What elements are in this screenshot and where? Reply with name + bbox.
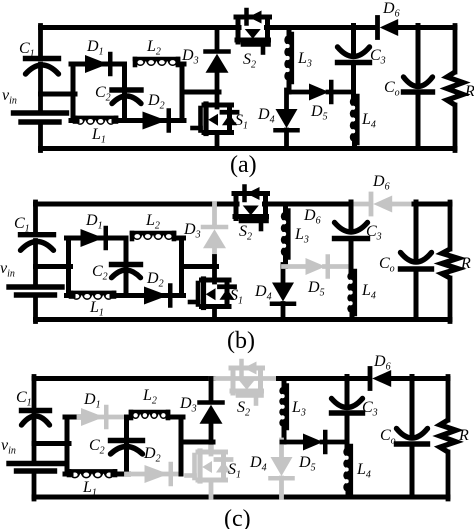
svg-text:C1: C1 — [19, 40, 35, 60]
wire loop left vertical (fig c) — [65, 417, 70, 474]
wire L4 to bottom rail (fig c) — [346, 491, 351, 497]
wire D4 upper stub (fig b) — [281, 265, 286, 283]
capacitor C3 (fig a) — [338, 47, 386, 67]
svg-text:L4: L4 — [361, 111, 376, 131]
wire L4 to bottom rail (fig b) — [350, 312, 355, 320]
wire loop left vertical (fig a) — [71, 64, 76, 121]
capacitor C1 (fig c) — [16, 389, 50, 425]
wire input node (fig c) — [34, 441, 69, 446]
svg-text:C1: C1 — [14, 215, 30, 235]
wire bottom branch (fig b) — [67, 293, 129, 298]
wire D5 branch (fig a) — [287, 90, 354, 95]
wire S1 to bottom rail (fig c) — [209, 480, 214, 497]
svg-text:Co: Co — [384, 79, 400, 99]
wire D3 to S1 (fig a) — [215, 73, 220, 107]
diode D6 (fig b) — [371, 173, 392, 214]
inductor L3 (fig a) — [284, 34, 312, 82]
wire right rail (fig a) — [453, 26, 458, 151]
svg-text:C2: C2 — [95, 84, 111, 104]
inductor L3 (fig c) — [279, 386, 306, 429]
wire D3 upper stub (fig c) — [209, 379, 214, 401]
wire top branch (fig c) — [65, 415, 183, 420]
label (b) — [227, 328, 255, 354]
svg-text:L3: L3 — [294, 226, 309, 246]
diode D1 (fig c) — [81, 391, 106, 427]
wire D5 branch (fig b) — [284, 264, 352, 269]
svg-text:(a): (a) — [230, 152, 257, 178]
label (c) — [224, 506, 251, 529]
wire L3 upper stub (fig b) — [283, 204, 288, 213]
svg-text:D3: D3 — [179, 395, 197, 415]
wire L3 upper stub (fig c) — [282, 379, 287, 388]
inductor L1 (fig a) — [75, 118, 116, 146]
diode D6 (fig a) — [378, 0, 400, 38]
capacitor C3 (fig c) — [332, 399, 378, 419]
svg-text:L3: L3 — [297, 50, 312, 70]
wire top rail left (fig b) — [36, 202, 238, 207]
wire tap to switch leg (fig c) — [181, 440, 213, 445]
diode D5 (fig c) — [298, 432, 325, 474]
source vin (fig c) — [1, 437, 62, 471]
wire loop right vertical (fig c) — [179, 417, 184, 474]
svg-text:S1: S1 — [235, 112, 248, 132]
wire C2 branch (fig c) — [124, 417, 129, 474]
inductor L4 (fig a) — [350, 96, 376, 143]
diode D1 (fig a) — [85, 38, 110, 74]
transistor S2 (fig b) — [234, 187, 268, 243]
wire top rail left (fig c) — [34, 376, 213, 381]
svg-text:C3: C3 — [366, 223, 382, 243]
wire D4 to bottom rail (fig a) — [284, 130, 289, 149]
wire input node (fig a) — [41, 92, 76, 97]
wire top rail right (fig a) — [398, 25, 455, 30]
wire input node (fig b) — [36, 264, 71, 269]
svg-text:L4: L4 — [361, 282, 376, 302]
svg-text:S2: S2 — [243, 51, 256, 71]
svg-text:S2: S2 — [239, 223, 252, 243]
capacitor Co (fig a) — [384, 77, 433, 99]
wire D3 to S1 (fig c) — [209, 424, 214, 454]
wire L3 lower stub (fig c) — [282, 426, 287, 442]
svg-text:D6: D6 — [373, 353, 391, 373]
wire top rail middle (fig a) — [267, 25, 376, 30]
wire loop left vertical (fig b) — [66, 238, 71, 296]
inductor L1 (fig b) — [71, 293, 114, 319]
resistor R (fig a) — [447, 72, 474, 105]
wire loop right vertical (fig a) — [180, 64, 185, 121]
diode D3 (fig a) — [181, 47, 229, 73]
capacitor C2 (fig a) — [95, 84, 141, 104]
inductor L2 (fig a) — [135, 38, 178, 66]
wire D3 upper stub (fig a) — [215, 28, 220, 50]
wire bottom branch (fig a) — [71, 118, 127, 123]
wire top rail grey segment (fig c) — [211, 376, 280, 381]
wire S1 to bottom rail (fig a) — [215, 133, 220, 149]
svg-text:D6: D6 — [303, 207, 321, 227]
svg-text:D2: D2 — [143, 445, 161, 465]
wire loop right vertical (fig b) — [179, 238, 184, 296]
wire bottom branch right (fig a) — [125, 118, 185, 123]
svg-text:D5: D5 — [307, 279, 325, 299]
capacitor Co (fig c) — [380, 427, 428, 447]
wire left rail (fig c) — [32, 377, 37, 500]
inductor L4 (fig b) — [347, 271, 376, 314]
svg-text:C2: C2 — [89, 437, 105, 457]
wire tap to switch leg (fig b) — [182, 264, 217, 269]
svg-text:L2: L2 — [146, 38, 161, 58]
diode D4 (fig b) — [254, 283, 294, 304]
wire D3 to S1 (fig b) — [212, 248, 217, 282]
svg-text:S2: S2 — [237, 399, 250, 419]
svg-text:L2: L2 — [142, 387, 157, 407]
svg-text:D4: D4 — [257, 106, 275, 126]
label D6 inner (fig b) — [303, 207, 321, 227]
source vin (fig a) — [2, 87, 67, 122]
diode D3 (fig b) — [183, 221, 226, 248]
svg-text:C3: C3 — [370, 47, 386, 67]
wire top rail output loop (fig b) — [414, 202, 450, 207]
wire L4 to bottom rail (fig a) — [352, 141, 357, 149]
diode D1 (fig b) — [81, 212, 106, 248]
wire C3 to L4 (fig c) — [345, 413, 350, 448]
svg-text:vin: vin — [1, 437, 16, 457]
svg-text:Co: Co — [379, 255, 395, 275]
diode D2 (fig a) — [143, 92, 169, 131]
capacitor Co (fig b) — [379, 253, 432, 275]
svg-text:L3: L3 — [291, 399, 306, 419]
svg-text:D3: D3 — [183, 221, 201, 241]
diode D4 (fig a) — [257, 106, 298, 130]
capacitor C2 (fig b) — [92, 263, 141, 283]
wire C3 to L4 (fig a) — [351, 63, 356, 99]
wire bottom branch (fig c) — [65, 472, 129, 477]
svg-text:L1: L1 — [82, 479, 97, 499]
diode D4 (fig c) — [249, 454, 293, 478]
inductor L4 (fig c) — [343, 446, 371, 493]
transistor S1 (fig a) — [193, 104, 249, 134]
label (a) — [230, 152, 257, 178]
wire D5 branch (fig c) — [282, 440, 347, 445]
svg-text:vin: vin — [2, 87, 17, 107]
inductor L3 (fig b) — [281, 211, 309, 258]
svg-text:D1: D1 — [86, 38, 104, 58]
svg-text:D4: D4 — [254, 283, 272, 303]
transistor S2 (fig c) — [231, 361, 263, 419]
svg-text:vin: vin — [0, 260, 15, 280]
svg-text:Co: Co — [380, 427, 396, 447]
svg-text:C1: C1 — [16, 389, 32, 409]
inductor L2 (fig b) — [132, 212, 174, 240]
resistor R (fig c) — [440, 420, 469, 452]
wire D4 to bottom rail (fig b) — [281, 304, 286, 320]
svg-text:D2: D2 — [146, 270, 164, 290]
wire left rail (fig a) — [38, 26, 43, 151]
wire bottom rail (fig c) — [34, 495, 448, 500]
wire D4 upper stub (fig c) — [279, 440, 284, 457]
svg-text:D1: D1 — [85, 212, 103, 232]
transistor S1 (fig c) — [187, 451, 242, 481]
wire C2 branch (fig b) — [124, 238, 129, 296]
wire top rail right (fig c) — [279, 376, 449, 381]
wire L3 lower stub (fig a) — [287, 80, 292, 92]
wire bottom rail (fig b) — [36, 317, 451, 322]
diode D5 (fig b) — [306, 257, 328, 299]
svg-text:C3: C3 — [362, 399, 378, 419]
diode D3 (fig c) — [179, 395, 223, 424]
capacitor C3 (fig b) — [335, 223, 382, 243]
svg-text:D3: D3 — [181, 47, 199, 67]
wire Co branch (fig a) — [416, 26, 421, 149]
wire top branch grey (fig c) — [79, 415, 129, 420]
wire C3 to L4 (fig b) — [349, 239, 354, 274]
svg-text:D1: D1 — [83, 391, 101, 411]
svg-text:D5: D5 — [310, 103, 328, 123]
svg-text:D6: D6 — [382, 0, 400, 20]
wire top rail middle (fig b) — [265, 202, 352, 207]
wire bottom branch right (fig b) — [126, 293, 184, 298]
svg-text:S1: S1 — [230, 287, 243, 307]
inductor L1 (fig c) — [69, 471, 115, 498]
wire Co branch (fig b) — [414, 202, 419, 320]
source vin (fig b) — [0, 260, 62, 295]
wire D4 to bottom rail (fig c) — [279, 478, 284, 497]
wire bottom branch right grey (fig c) — [127, 472, 180, 477]
wire D4 upper stub (fig a) — [284, 90, 289, 109]
wire left rail (fig b) — [33, 202, 38, 322]
svg-text:R: R — [464, 83, 474, 100]
svg-text:C2: C2 — [92, 263, 108, 283]
wire Co branch (fig c) — [410, 377, 415, 498]
wire L3 lower stub (fig b) — [283, 256, 288, 267]
diode D2 (fig b) — [144, 270, 170, 306]
resistor R (fig b) — [442, 249, 471, 278]
capacitor C1 (fig b) — [14, 215, 54, 250]
wire top rail grey segment (fig b) — [351, 202, 416, 207]
wire right rail (fig c) — [446, 377, 451, 500]
svg-text:D5: D5 — [298, 454, 316, 474]
capacitor C1 (fig a) — [19, 40, 59, 74]
diode D6 (fig c) — [370, 353, 391, 389]
inductor L2 (fig c) — [131, 387, 168, 419]
wire S1 to bottom rail (fig b) — [212, 307, 217, 320]
svg-text:D4: D4 — [249, 454, 267, 474]
wire C3 upper stub (fig a) — [351, 26, 356, 57]
capacitor C2 (fig c) — [89, 437, 143, 457]
wire top branch (fig b) — [67, 236, 184, 241]
svg-text:L1: L1 — [89, 299, 104, 319]
wire tap to switch leg (fig a) — [182, 90, 219, 95]
svg-text:D2: D2 — [147, 92, 165, 112]
wire top rail left (fig a) — [41, 25, 240, 30]
svg-text:R: R — [458, 427, 469, 444]
transistor S2 (fig a) — [236, 10, 270, 71]
svg-text:R: R — [460, 255, 471, 272]
svg-text:(b): (b) — [227, 328, 255, 354]
wire top branch (fig a) — [71, 62, 184, 67]
wire C2 branch (fig a) — [122, 64, 127, 121]
svg-text:L1: L1 — [91, 126, 106, 146]
svg-text:L2: L2 — [145, 212, 160, 232]
diode D5 (fig a) — [309, 82, 331, 123]
svg-text:(c): (c) — [224, 506, 251, 529]
wire C3 upper stub (fig b) — [349, 202, 354, 232]
diode D2 (fig c) — [143, 445, 171, 484]
svg-text:S1: S1 — [228, 461, 241, 481]
wire right rail (fig b) — [448, 202, 453, 322]
transistor S1 (fig b) — [190, 279, 243, 308]
wire bottom rail (fig a) — [41, 146, 456, 151]
svg-text:D6: D6 — [372, 173, 390, 193]
svg-text:L4: L4 — [356, 461, 371, 481]
wire L3 upper stub (fig a) — [287, 28, 292, 37]
wire C3 upper stub (fig c) — [345, 377, 350, 408]
wire D3 upper stub (fig b) — [212, 204, 217, 225]
